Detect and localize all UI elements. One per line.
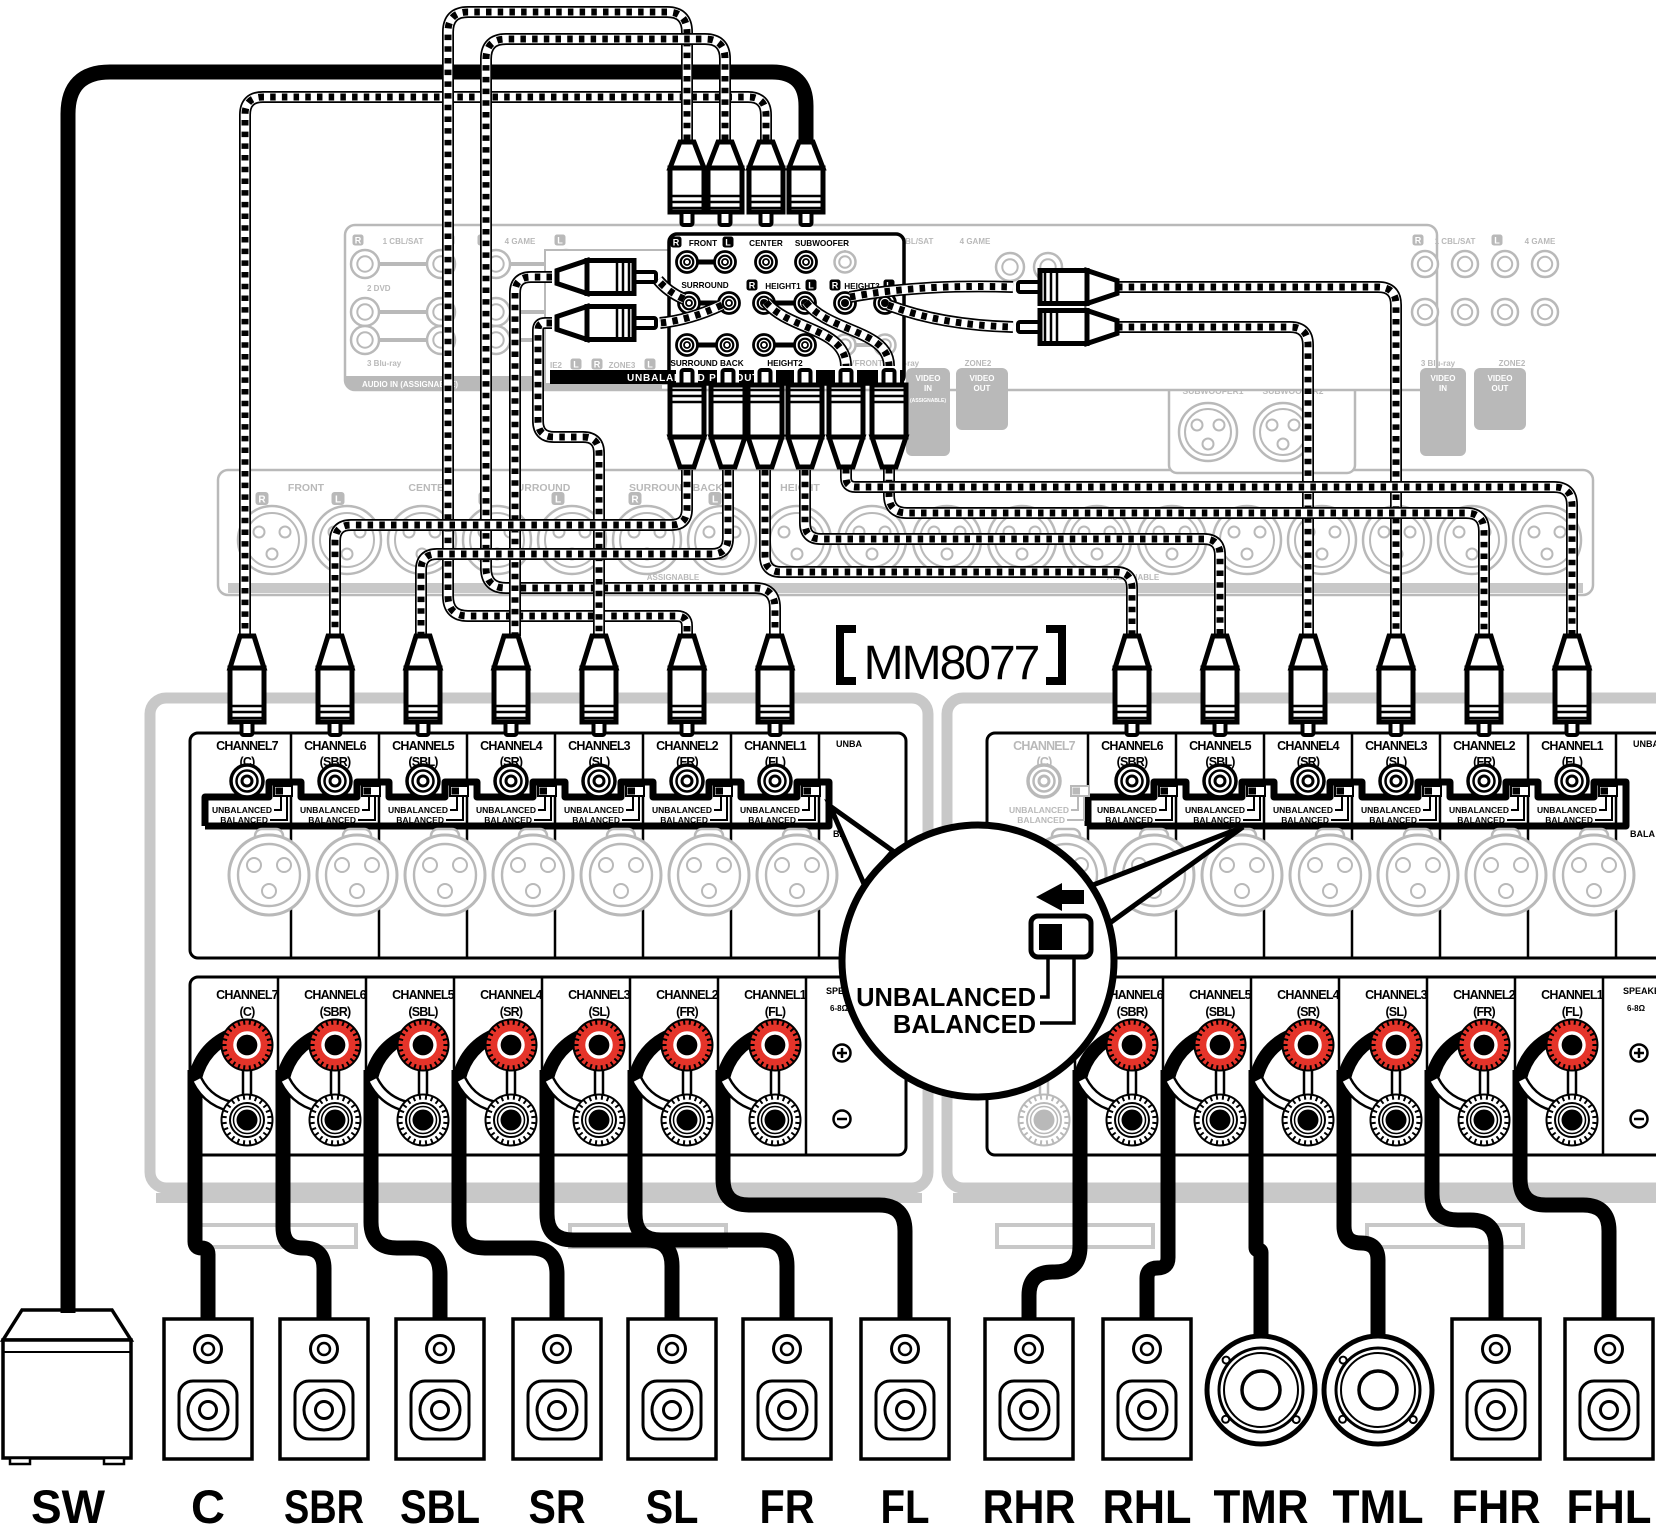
svg-text:HEIGHT2: HEIGHT2 [767,359,803,368]
svg-text:CHANNEL6: CHANNEL6 [1101,739,1164,753]
svg-text:UNBA: UNBA [836,739,862,749]
svg-text:R: R [673,238,680,248]
svg-text:CHANNEL7: CHANNEL7 [216,988,279,1002]
svg-text:CHANNEL5: CHANNEL5 [392,988,455,1002]
svg-text:BALANCED: BALANCED [893,1011,1036,1039]
svg-text:CHANNEL3: CHANNEL3 [568,988,631,1002]
svg-text:(FL): (FL) [1562,1005,1583,1019]
svg-text:(SL): (SL) [1385,1005,1407,1019]
svg-text:ZONE2: ZONE2 [965,359,992,368]
svg-text:(FR): (FR) [676,1005,698,1019]
svg-text:BALANCED: BALANCED [660,815,708,825]
svg-text:4 GAME: 4 GAME [1525,237,1556,246]
svg-text:CHANNEL7: CHANNEL7 [1013,739,1076,753]
svg-text:4 GAME: 4 GAME [505,237,536,246]
svg-text:RHL: RHL [1103,1480,1192,1532]
svg-text:(FL): (FL) [765,1005,786,1019]
svg-text:BALANCED: BALANCED [1369,815,1417,825]
svg-text:TML: TML [1333,1480,1424,1532]
svg-text:TMR: TMR [1214,1480,1309,1532]
svg-text:BALANCED: BALANCED [1105,815,1153,825]
svg-text:SBL: SBL [400,1480,480,1532]
svg-text:(SL): (SL) [588,1005,610,1019]
svg-text:L: L [647,360,653,370]
svg-text:VIDEO: VIDEO [916,374,941,383]
svg-text:(SBL): (SBL) [1205,1005,1235,1019]
svg-text:CHANNEL2: CHANNEL2 [656,739,719,753]
svg-text:SW: SW [31,1480,106,1532]
svg-text:UNBALANCED: UNBALANCED [1361,805,1421,815]
svg-text:(SR): (SR) [500,1005,523,1019]
svg-text:(C): (C) [240,1005,256,1019]
svg-text:BALANCED: BALANCED [1017,815,1065,825]
svg-text:BALA: BALA [1630,829,1655,839]
svg-text:CHANNEL1: CHANNEL1 [744,988,807,1002]
svg-text:BALANCED: BALANCED [1281,815,1329,825]
svg-text:FR: FR [760,1480,815,1532]
svg-text:CHANNEL3: CHANNEL3 [1365,739,1428,753]
svg-text:C: C [191,1480,225,1532]
svg-text:OUT: OUT [974,384,991,393]
svg-text:ZONE3: ZONE3 [609,361,636,370]
svg-text:L: L [808,281,814,291]
svg-text:UNBALANCED: UNBALANCED [1449,805,1509,815]
svg-text:FRONT: FRONT [288,482,325,494]
svg-text:UNBALANCED: UNBALANCED [740,805,800,815]
svg-text:ZONE2: ZONE2 [1499,359,1526,368]
svg-text:6-8Ω: 6-8Ω [1627,1004,1646,1013]
svg-text:VFRONT: VFRONT [849,359,883,368]
svg-text:BALANCED: BALANCED [748,815,796,825]
svg-text:SR: SR [529,1480,586,1532]
svg-text:UNBALANCED: UNBALANCED [856,984,1036,1012]
svg-text:IN: IN [924,384,932,393]
svg-text:SURROUND BACK: SURROUND BACK [629,482,723,494]
svg-text:BALANCED: BALANCED [308,815,356,825]
svg-text:CHANNEL5: CHANNEL5 [1189,988,1252,1002]
svg-text:VIDEO: VIDEO [1431,374,1456,383]
svg-text:CHANNEL4: CHANNEL4 [480,739,543,753]
svg-text:SPEAKERS: SPEAKERS [1623,986,1656,996]
svg-text:CHANNEL1: CHANNEL1 [1541,739,1604,753]
svg-text:BALANCED: BALANCED [1193,815,1241,825]
svg-text:MM8077: MM8077 [864,637,1039,690]
svg-text:4 GAME: 4 GAME [960,237,991,246]
svg-text:CHANNEL2: CHANNEL2 [1453,988,1516,1002]
svg-text:OUT: OUT [1492,384,1509,393]
svg-text:3 Blu-ray: 3 Blu-ray [1421,359,1456,368]
svg-text:L: L [1494,236,1500,246]
svg-text:CENTER: CENTER [749,239,783,248]
svg-text:CHANNEL4: CHANNEL4 [1277,739,1340,753]
svg-text:R: R [594,360,601,370]
svg-text:(SBL): (SBL) [408,1005,438,1019]
svg-text:L: L [573,360,579,370]
svg-text:R: R [355,236,362,246]
svg-text:CHANNEL5: CHANNEL5 [392,739,455,753]
svg-text:BALANCED: BALANCED [572,815,620,825]
svg-text:2 DVD: 2 DVD [367,284,391,293]
svg-text:IN: IN [1439,384,1447,393]
svg-text:R: R [832,281,839,291]
svg-text:VIDEO: VIDEO [970,374,995,383]
svg-text:FL: FL [881,1480,930,1532]
svg-text:ASSIGNABLE: ASSIGNABLE [647,573,700,582]
svg-text:R: R [1415,236,1422,246]
svg-text:BALANCED: BALANCED [220,815,268,825]
svg-text:CHANNEL2: CHANNEL2 [656,988,719,1002]
svg-text:SL: SL [646,1480,699,1532]
svg-text:FRONT: FRONT [689,239,717,248]
svg-text:R: R [749,281,756,291]
svg-text:L: L [725,238,731,248]
svg-text:SURROUND BACK: SURROUND BACK [670,359,743,368]
svg-text:CHANNEL7: CHANNEL7 [216,739,279,753]
svg-text:L: L [557,236,563,246]
svg-text:CHANNEL6: CHANNEL6 [304,739,367,753]
svg-text:CHANNEL1: CHANNEL1 [1541,988,1604,1002]
svg-text:(SR): (SR) [1297,1005,1320,1019]
svg-text:BALANCED: BALANCED [484,815,532,825]
svg-text:CHANNEL3: CHANNEL3 [568,739,631,753]
svg-text:UNBALANCED: UNBALANCED [1097,805,1157,815]
svg-text:CHANNEL6: CHANNEL6 [304,988,367,1002]
svg-text:UNBALANCED: UNBALANCED [476,805,536,815]
svg-text:CHANNEL4: CHANNEL4 [480,988,543,1002]
svg-text:(FR): (FR) [1473,1005,1495,1019]
svg-text:IE2: IE2 [550,361,563,370]
svg-text:CHANNEL5: CHANNEL5 [1189,739,1252,753]
svg-text:VIDEO: VIDEO [1488,374,1513,383]
svg-text:(SBR): (SBR) [1117,1005,1148,1019]
svg-text:L: L [555,495,561,506]
svg-text:UNBALANCED: UNBALANCED [300,805,360,815]
svg-text:UNBALANCED: UNBALANCED [1185,805,1245,815]
svg-text:UNBALANCED: UNBALANCED [1009,805,1069,815]
svg-text:UNBALANCED: UNBALANCED [652,805,712,815]
svg-text:L: L [335,495,341,506]
svg-text:UNBALANCED: UNBALANCED [564,805,624,815]
svg-text:HEIGHT1: HEIGHT1 [765,282,801,291]
svg-text:SUBWOOFER: SUBWOOFER [795,239,849,248]
svg-text:RHR: RHR [983,1480,1076,1532]
svg-text:UNBALANCED: UNBALANCED [1537,805,1597,815]
svg-text:R: R [258,495,266,506]
svg-text:BALANCED: BALANCED [1545,815,1593,825]
svg-text:SBR: SBR [284,1480,364,1532]
svg-text:L: L [712,495,718,506]
svg-text:BALANCED: BALANCED [396,815,444,825]
svg-text:FHL: FHL [1567,1480,1652,1532]
svg-text:CHANNEL1: CHANNEL1 [744,739,807,753]
svg-text:BALANCED: BALANCED [1457,815,1505,825]
svg-text:SURROUND: SURROUND [681,281,728,290]
svg-text:UNBALANCED: UNBALANCED [388,805,448,815]
svg-text:1 CBL/SAT: 1 CBL/SAT [383,237,424,246]
svg-text:1 CBL/SAT: 1 CBL/SAT [1435,237,1476,246]
svg-text:FHR: FHR [1452,1480,1541,1532]
svg-text:UNBALANCED: UNBALANCED [212,805,272,815]
svg-text:(SBR): (SBR) [320,1005,351,1019]
svg-text:CHANNEL2: CHANNEL2 [1453,739,1516,753]
svg-text:(ASSIGNABLE): (ASSIGNABLE) [910,398,946,404]
svg-text:3 Blu-ray: 3 Blu-ray [367,359,402,368]
svg-text:CHANNEL3: CHANNEL3 [1365,988,1428,1002]
svg-text:UNBALANCED: UNBALANCED [1273,805,1333,815]
svg-text:CHANNEL4: CHANNEL4 [1277,988,1340,1002]
svg-text:R: R [631,495,639,506]
svg-text:UNBA: UNBA [1633,739,1656,749]
